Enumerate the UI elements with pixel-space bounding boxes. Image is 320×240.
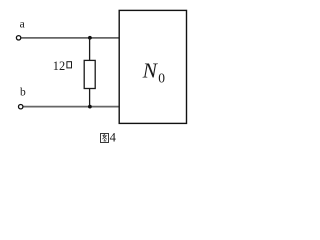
resistor value ohm glyph (tofu box) bbox=[67, 62, 72, 68]
svg-text:0: 0 bbox=[158, 70, 165, 85]
junction node top bbox=[88, 36, 92, 40]
wire b to N0 (bottom horizontal) bbox=[23, 106, 119, 108]
wire a to N0 (top horizontal) bbox=[21, 37, 119, 39]
svg-text:N: N bbox=[142, 59, 159, 83]
svg-text:4: 4 bbox=[110, 130, 117, 144]
caption glyph 图 (hand drawn) bbox=[101, 134, 109, 143]
svg-text:a: a bbox=[20, 18, 25, 30]
wire junction to resistor top bbox=[89, 38, 91, 61]
terminal b bbox=[19, 105, 23, 109]
two-port network box N0 bbox=[119, 10, 186, 123]
svg-text:12: 12 bbox=[53, 59, 65, 73]
svg-text:b: b bbox=[20, 86, 26, 98]
resistor R1 body bbox=[84, 60, 95, 88]
terminal a bbox=[16, 36, 20, 40]
junction node bottom bbox=[88, 105, 92, 109]
wire resistor bottom to junction bbox=[89, 89, 91, 107]
